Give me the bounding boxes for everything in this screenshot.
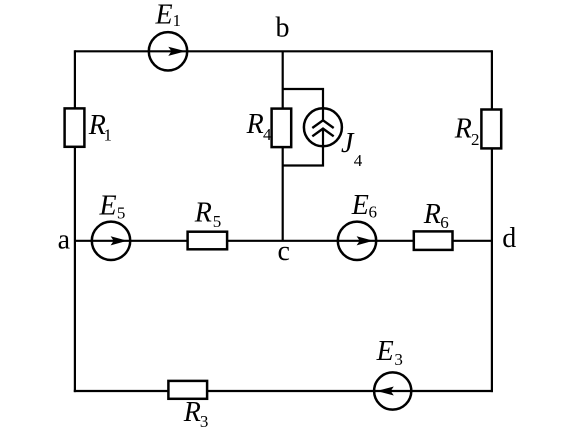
resistor R2 [481,110,501,149]
svg-text:1: 1 [104,125,113,144]
wire left: top corner through R1 and node a to bottom corner [74,50,76,392]
svg-text:b: b [276,12,290,43]
svg-text:4: 4 [263,125,272,144]
svg-text:R: R [246,109,264,140]
EMF source E5 [92,222,130,260]
EMF source E1 [149,32,187,70]
resistor R3 [168,381,207,399]
wire middle vertical: node b through R4 to node c [282,51,284,241]
svg-text:E: E [351,190,369,221]
wire J4 branch top [283,89,323,111]
wire top: top-left corner through E1 and node b to top-right corner [75,50,492,52]
EMF source E6 [338,222,376,260]
svg-text:R: R [423,199,441,230]
svg-text:3: 3 [200,412,209,431]
svg-text:R: R [183,397,201,428]
svg-text:E: E [99,190,117,221]
wire bottom: through R3 and E3 [74,390,493,392]
EMF source E3 [374,372,411,409]
wire middle row: node a through E5, R5, node c, E6, R6 to node d [75,240,492,242]
svg-text:R: R [454,113,472,144]
svg-text:6: 6 [440,213,449,232]
svg-text:a: a [58,225,71,256]
resistor R6 [414,231,453,250]
svg-text:4: 4 [354,151,363,170]
svg-text:1: 1 [173,11,182,30]
wire J4 branch bottom [283,144,323,166]
svg-text:2: 2 [471,130,480,149]
svg-text:R: R [194,197,212,228]
svg-text:d: d [502,223,516,254]
svg-text:6: 6 [369,203,378,222]
current source J4 [304,108,342,146]
svg-text:c: c [278,236,290,267]
resistor R5 [188,232,228,250]
resistor R4 [272,109,292,148]
svg-text:5: 5 [213,212,222,231]
svg-text:3: 3 [394,350,403,369]
svg-text:E: E [376,336,394,367]
resistor R1 [65,108,85,146]
svg-text:5: 5 [117,204,126,223]
svg-text:E: E [155,0,173,30]
wire right: top corner through R2 and node d to bottom corner [491,50,493,392]
